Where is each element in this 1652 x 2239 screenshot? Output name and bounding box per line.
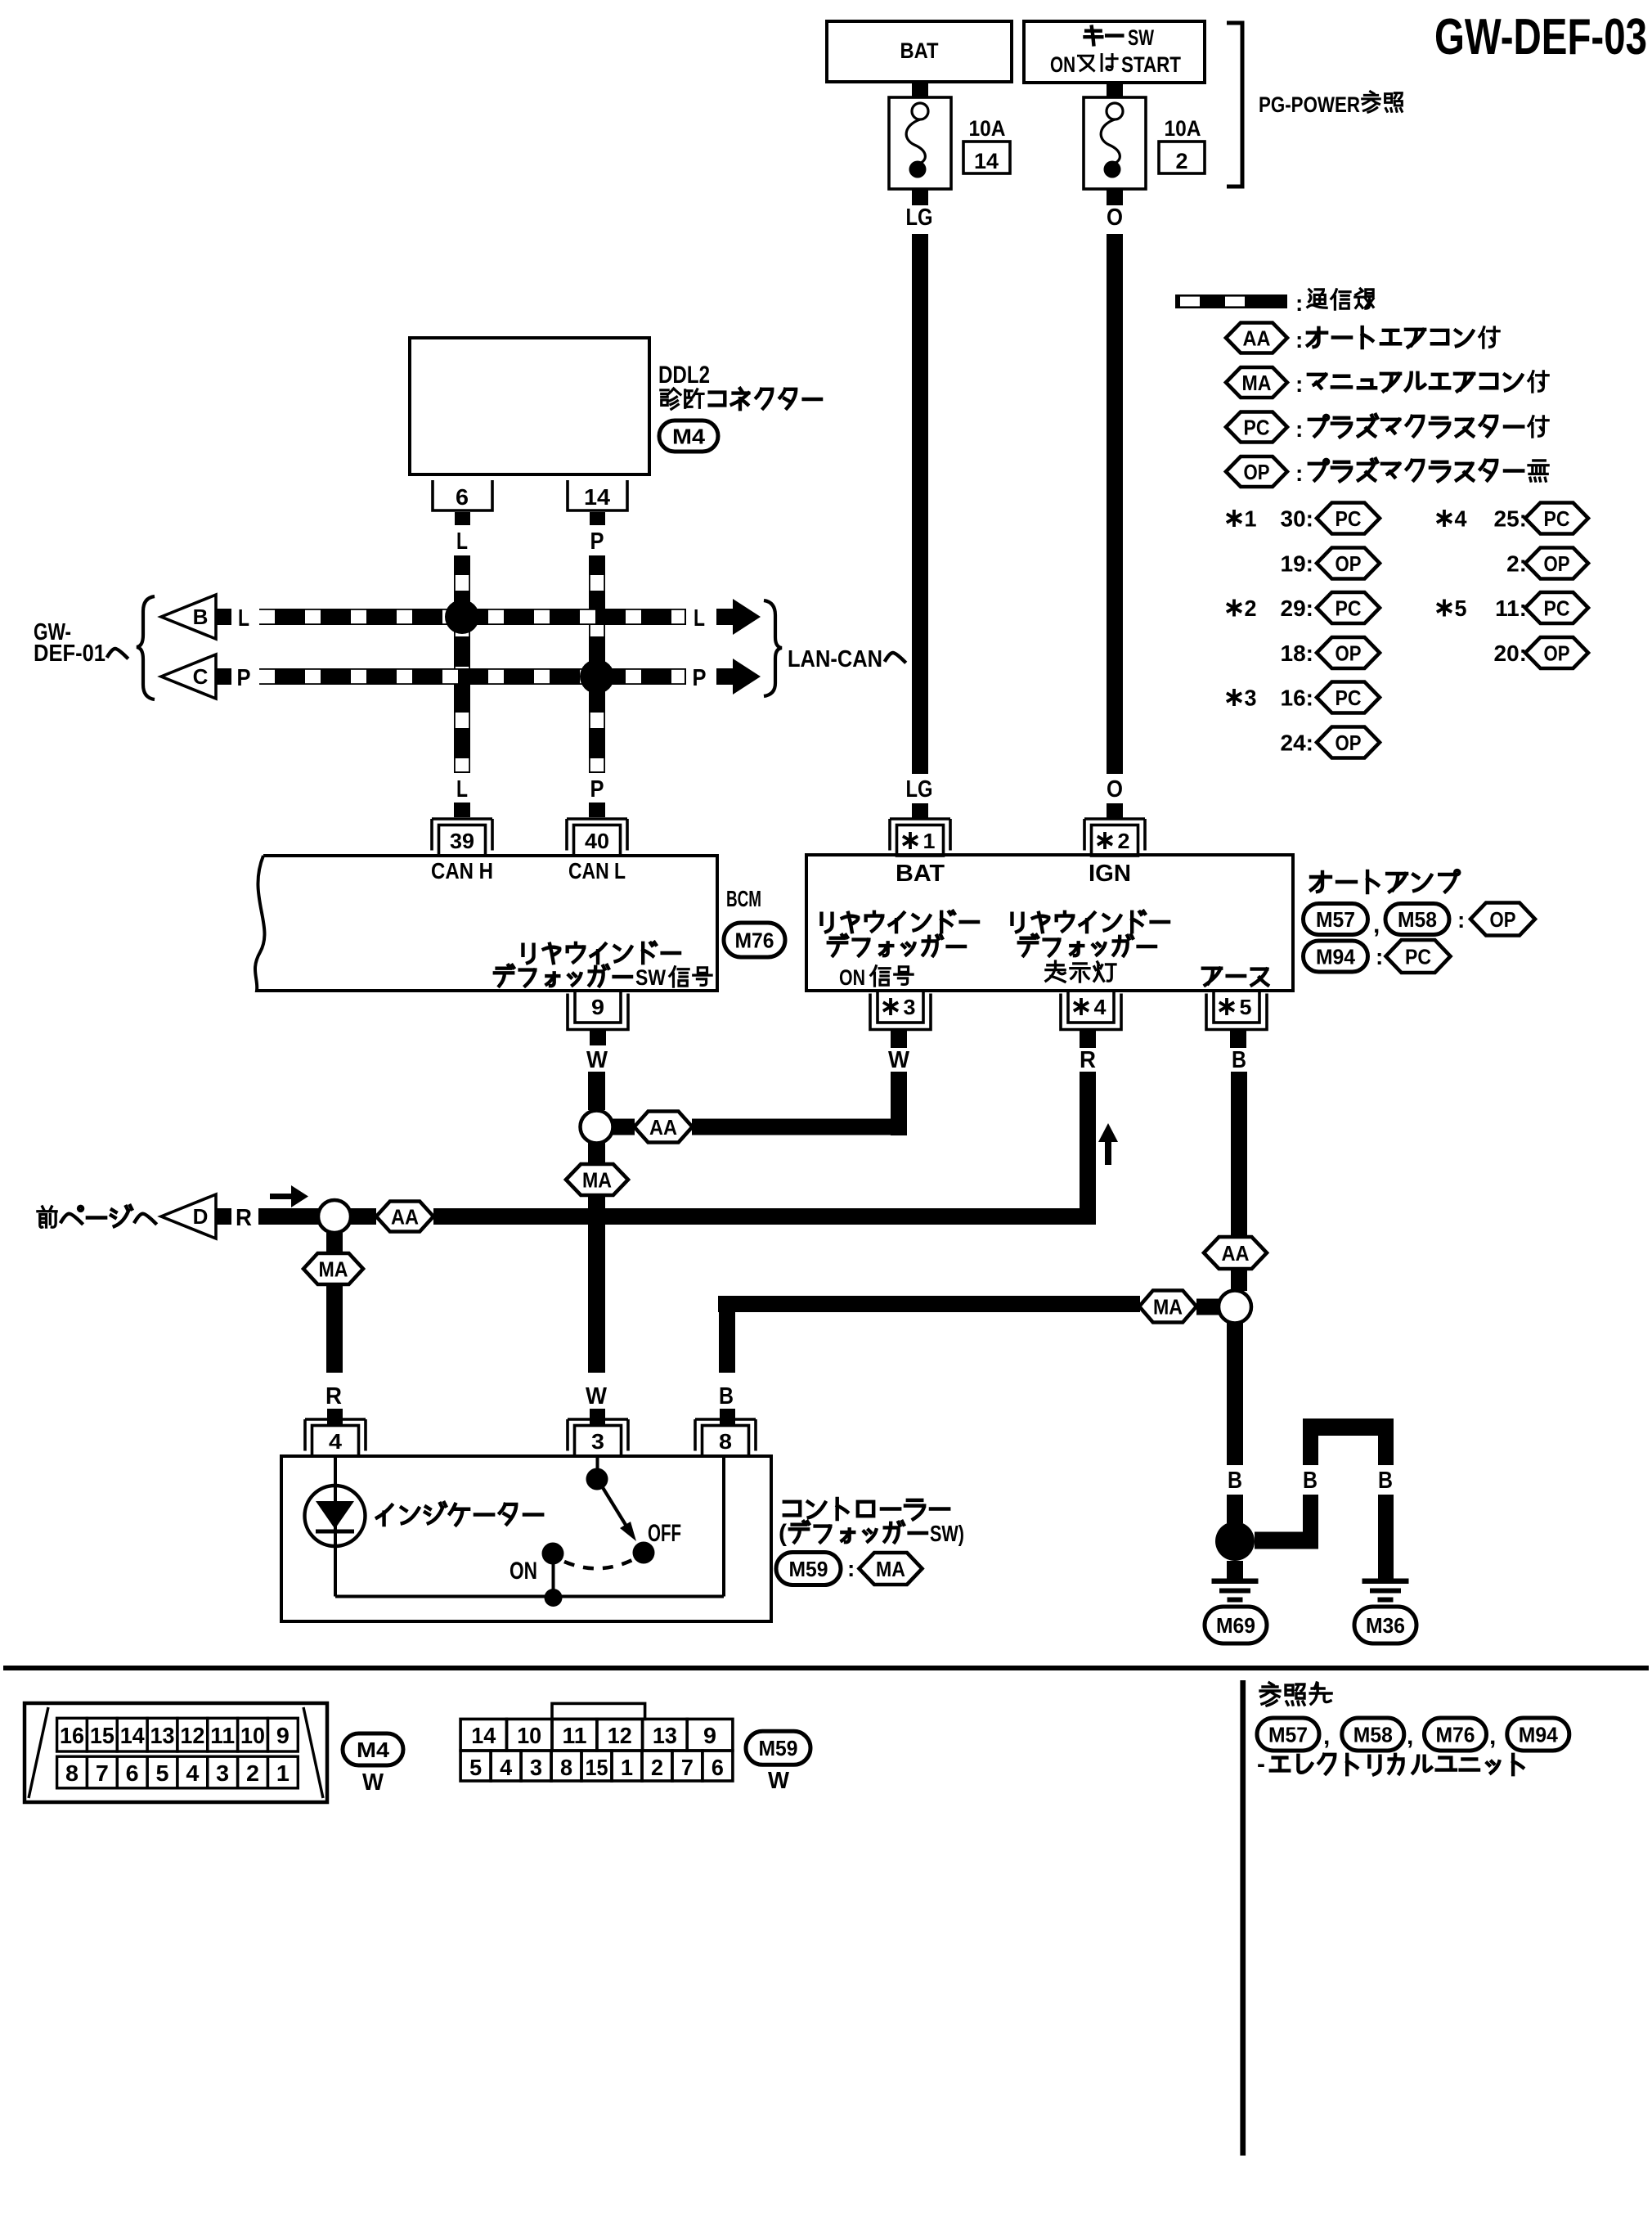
comm wire L horizontal: [259, 609, 686, 625]
svg-text:R: R: [325, 1383, 342, 1409]
label rear window defogger indicator: [1012, 911, 1169, 932]
pin 39: [432, 819, 492, 851]
svg-text:PC: PC: [1405, 944, 1431, 969]
connector M94 PC: [1304, 941, 1368, 972]
module controller box: [281, 1456, 771, 1621]
connector M36 oval: [1354, 1607, 1416, 1643]
svg-text:13: 13: [653, 1723, 677, 1748]
svg-text:5: 5: [1455, 596, 1467, 621]
svg-text:14: 14: [120, 1723, 145, 1748]
svg-text:W: W: [888, 1047, 910, 1073]
svg-text:C: C: [193, 664, 209, 689]
svg-text:24:: 24:: [1281, 731, 1313, 756]
svg-text:M59: M59: [759, 1736, 798, 1760]
svg-text:OP: OP: [1336, 731, 1362, 755]
indicator LED: [305, 1486, 366, 1546]
svg-text:L: L: [694, 605, 705, 632]
pin *3: [870, 994, 931, 1030]
svg-text:M94: M94: [1519, 1722, 1559, 1747]
svg-text:,: ,: [1407, 1723, 1413, 1750]
svg-text:AA: AA: [1243, 326, 1271, 350]
svg-text:MA: MA: [1153, 1294, 1183, 1319]
svg-text:4: 4: [500, 1755, 512, 1780]
wire R vertical from pin *4: [1080, 1072, 1096, 1225]
fuse F14 10A: [889, 97, 951, 189]
svg-text::: :: [1376, 944, 1383, 969]
svg-text:AA: AA: [649, 1115, 677, 1140]
svg-text:11:: 11:: [1495, 596, 1527, 621]
label earth: [1203, 969, 1268, 986]
pin 6 of DDL2: [433, 480, 492, 510]
svg-text:15: 15: [90, 1723, 114, 1748]
svg-text:B: B: [1378, 1468, 1393, 1494]
wire keySW to fuse: [1107, 83, 1123, 98]
wire R long horizontal: [433, 1208, 1096, 1225]
svg-text:40: 40: [585, 829, 609, 853]
svg-text:OFF: OFF: [648, 1520, 681, 1547]
svg-text:6: 6: [456, 484, 469, 510]
svg-text:GW-DEF-03: GW-DEF-03: [1434, 9, 1647, 65]
svg-text:M94: M94: [1316, 944, 1356, 969]
arrow P to LAN-CAN: [716, 668, 733, 685]
connector face M4: [25, 1703, 327, 1802]
legend row *316:PC: [1227, 689, 1241, 706]
svg-text:BAT: BAT: [900, 38, 939, 63]
svg-text:4: 4: [1094, 995, 1107, 1019]
svg-text:L: L: [456, 528, 468, 555]
wire internal pin4: [334, 1456, 337, 1597]
svg-text:4: 4: [186, 1760, 199, 1786]
svg-text::: :: [1295, 327, 1303, 353]
svg-text:W: W: [586, 1047, 608, 1073]
svg-text:,: ,: [1489, 1723, 1496, 1750]
svg-text:6: 6: [712, 1755, 724, 1780]
junction dot CAN-H: [445, 600, 479, 634]
svg-text:AA: AA: [1222, 1241, 1250, 1266]
svg-text:R: R: [236, 1205, 252, 1231]
svg-text:M76: M76: [735, 928, 774, 952]
svg-text:OP: OP: [1544, 641, 1570, 665]
pin 40: [567, 819, 627, 851]
svg-text:1: 1: [621, 1755, 633, 1780]
pin *4: [1061, 994, 1121, 1030]
reference connectors M57 M58 M76 M94: [1257, 1718, 1319, 1751]
pin 8: [695, 1419, 756, 1451]
svg-text:P: P: [237, 665, 251, 691]
legend row *229:PC: [1227, 600, 1241, 617]
junction dot CAN-L: [580, 659, 614, 694]
svg-text:6: 6: [126, 1760, 139, 1786]
svg-text:-: -: [1257, 1751, 1265, 1778]
svg-text:PG-POWER: PG-POWER: [1259, 92, 1360, 117]
wire B down: [1231, 1072, 1247, 1237]
wire R circle down: [326, 1233, 343, 1253]
module BCM box: [255, 856, 717, 991]
fuse F2 10A: [1084, 97, 1146, 189]
svg-text:ON: ON: [1050, 52, 1075, 77]
svg-text:4: 4: [1455, 506, 1467, 532]
svg-text:START: START: [1121, 52, 1181, 77]
svg-text:LG: LG: [906, 205, 933, 231]
svg-text:10: 10: [240, 1723, 265, 1748]
pin 4: [305, 1419, 366, 1451]
svg-text:PC: PC: [1544, 506, 1570, 531]
svg-text:PC: PC: [1544, 596, 1570, 620]
legend MA hexagon manual aircon: [1226, 367, 1287, 398]
svg-text:20:: 20:: [1494, 641, 1527, 666]
svg-text:M57: M57: [1268, 1722, 1308, 1747]
svg-text:3: 3: [904, 995, 916, 1019]
svg-text:30:: 30:: [1281, 506, 1313, 532]
junction circle B: [1219, 1291, 1251, 1324]
module auto amp box: [806, 855, 1293, 991]
svg-text:8: 8: [719, 1429, 732, 1454]
svg-text:3: 3: [530, 1755, 542, 1780]
svg-text:B: B: [1232, 1047, 1246, 1073]
label indicator: [377, 1503, 542, 1525]
svg-text:9: 9: [703, 1723, 716, 1748]
svg-text:MA: MA: [319, 1257, 348, 1281]
wire W circle down: [588, 1143, 605, 1165]
svg-text:OP: OP: [1336, 641, 1362, 665]
svg-text:MA: MA: [876, 1557, 905, 1581]
svg-text:PC: PC: [1336, 596, 1362, 620]
separator line: [3, 1666, 1649, 1670]
legend OP hexagon no plasmacluster: [1226, 456, 1287, 487]
svg-text:11: 11: [563, 1723, 587, 1748]
wire fuse F2 down O: [1107, 189, 1123, 205]
svg-text:14: 14: [974, 149, 999, 173]
svg-text:SW: SW: [635, 965, 666, 990]
page arrow D: [161, 1194, 216, 1239]
svg-text:10A: 10A: [1165, 116, 1201, 141]
pin *1: [890, 819, 950, 851]
svg-text:M69: M69: [1216, 1613, 1255, 1638]
svg-text:2: 2: [1118, 829, 1130, 853]
svg-text:OP: OP: [1544, 551, 1570, 576]
svg-text:10A: 10A: [969, 116, 1006, 141]
pin 9: [568, 994, 628, 1030]
connector M69 oval: [1205, 1607, 1267, 1643]
svg-text:B: B: [193, 605, 209, 629]
svg-text:O: O: [1107, 776, 1123, 803]
svg-text:OP: OP: [1244, 460, 1270, 484]
svg-text:O: O: [1107, 205, 1123, 231]
svg-text:CAN H: CAN H: [431, 858, 493, 883]
svg-text:BAT: BAT: [896, 861, 945, 887]
branch MA hexagon: [303, 1253, 363, 1284]
wire to AA: [613, 1119, 635, 1135]
svg-text:1: 1: [276, 1760, 290, 1786]
comm wire P vertical: [589, 555, 605, 773]
svg-text:2: 2: [246, 1760, 259, 1786]
page arrow C: [161, 654, 216, 699]
reference section divider: [1240, 1680, 1246, 2156]
svg-text:OP: OP: [1490, 907, 1516, 932]
svg-text:MA: MA: [582, 1167, 612, 1192]
svg-text:PC: PC: [1336, 686, 1362, 710]
label previous page: [38, 1206, 155, 1227]
svg-text:W: W: [768, 1768, 790, 1794]
connector M59 oval: [746, 1731, 810, 1765]
svg-text:P: P: [590, 776, 604, 803]
svg-text:M57: M57: [1316, 907, 1355, 932]
svg-text:M4: M4: [672, 424, 706, 448]
svg-text::: :: [1457, 907, 1465, 933]
legend row *425:PC: [1437, 510, 1452, 527]
wire R to circle: [258, 1208, 319, 1225]
svg-text:16:: 16:: [1281, 686, 1313, 711]
connector DDL2 box: [410, 338, 649, 474]
wire fuse F14 down LG: [912, 189, 928, 205]
comm wire L vertical: [454, 555, 470, 773]
label auto amp: [1311, 870, 1459, 892]
svg-text:ON: ON: [510, 1558, 537, 1585]
wire internal pin8: [722, 1456, 725, 1597]
svg-text:8: 8: [65, 1760, 79, 1786]
svg-text:LAN-CAN: LAN-CAN: [788, 646, 882, 672]
wire BAT to fuse: [912, 82, 928, 98]
page arrow B: [161, 595, 216, 639]
connector M4 oval: [659, 420, 718, 452]
svg-text:7: 7: [96, 1760, 109, 1786]
ground symbol M69: [1212, 1579, 1259, 1585]
pin *5: [1206, 994, 1267, 1030]
svg-text::: :: [1295, 290, 1303, 316]
connector M4 oval: [343, 1733, 403, 1765]
svg-text:PC: PC: [1336, 506, 1362, 531]
switch blade: [599, 1482, 626, 1525]
svg-text:16: 16: [60, 1723, 84, 1748]
svg-text:W: W: [586, 1383, 608, 1409]
flow arrow right: [270, 1194, 293, 1199]
svg-text:OP: OP: [1336, 551, 1362, 576]
svg-text:M58: M58: [1398, 907, 1437, 932]
svg-text:,: ,: [1323, 1723, 1330, 1750]
brace right: [764, 600, 782, 696]
flow arrow up: [1105, 1140, 1111, 1165]
legend row *130:PC: [1227, 510, 1241, 527]
switch common contact: [596, 1456, 599, 1469]
brace left: [137, 596, 155, 699]
wire ON to bottom: [552, 1553, 555, 1597]
label rear window defogger ON signal: [821, 911, 978, 932]
wire MA down to pin3: [588, 1195, 605, 1373]
svg-text:2: 2: [651, 1755, 663, 1780]
svg-text:B: B: [1228, 1468, 1242, 1494]
legend AA hexagon auto aircon: [1226, 323, 1287, 353]
wire to AA: [350, 1208, 376, 1225]
wire B horizontal to pin8: [718, 1296, 1140, 1312]
branch MA hexagon: [566, 1164, 628, 1195]
svg-text:M58: M58: [1353, 1722, 1393, 1747]
junction circle R: [318, 1200, 351, 1233]
pin *2: [1084, 819, 1145, 851]
wire AA to circle: [1231, 1269, 1247, 1291]
connector M59 MA: [776, 1553, 841, 1585]
wire internal bottom: [335, 1595, 724, 1598]
switch ON contact: [542, 1543, 564, 1565]
svg-text:SW: SW: [1128, 25, 1154, 50]
branch AA hexagon: [376, 1202, 433, 1232]
comm wire P horizontal: [259, 668, 686, 685]
connector face M59: [552, 1703, 645, 1719]
svg-text:25:: 25:: [1494, 506, 1527, 532]
svg-text::: :: [1295, 371, 1303, 397]
svg-text:3: 3: [1245, 686, 1257, 711]
wire AA to pin *3: [692, 1119, 891, 1135]
label rear window defogger SW signal: [523, 942, 680, 963]
svg-text::: :: [847, 1556, 855, 1581]
svg-text:W: W: [362, 1769, 384, 1796]
svg-text:14: 14: [471, 1723, 496, 1748]
svg-text:1: 1: [1245, 506, 1257, 532]
svg-text:3: 3: [591, 1429, 604, 1454]
power box BAT: [827, 21, 1012, 82]
svg-text:19:: 19:: [1281, 551, 1313, 577]
connector M76 oval: [724, 923, 785, 957]
legend row *511:PC: [1437, 600, 1452, 617]
branch AA hexagon: [1204, 1237, 1267, 1269]
svg-text:DEF-01: DEF-01: [34, 641, 105, 667]
ground symbol M36: [1362, 1579, 1409, 1585]
svg-text:P: P: [590, 528, 604, 555]
switch OFF contact: [633, 1542, 655, 1564]
wire B circle down: [1227, 1323, 1243, 1465]
pin 3: [568, 1419, 628, 1451]
svg-text:ON: ON: [839, 965, 865, 990]
label reference: [1260, 1683, 1331, 1706]
pin 14 of DDL2: [568, 480, 627, 510]
wire dot right: [1255, 1532, 1318, 1549]
svg-text:P: P: [693, 665, 707, 691]
svg-text:2: 2: [1176, 149, 1188, 173]
branch MA hexagon: [1139, 1291, 1196, 1323]
svg-text:SW): SW): [930, 1521, 964, 1546]
svg-text:L: L: [238, 605, 249, 632]
svg-text:DDL2: DDL2: [658, 362, 710, 389]
svg-text:12: 12: [608, 1723, 632, 1748]
svg-text:M4: M4: [357, 1738, 390, 1762]
svg-text:5: 5: [156, 1760, 169, 1786]
svg-text:18:: 18:: [1281, 641, 1313, 666]
svg-text:29:: 29:: [1281, 596, 1313, 621]
svg-text:B: B: [1303, 1468, 1318, 1494]
svg-text:M59: M59: [789, 1557, 828, 1581]
wire MA down to pin4: [326, 1284, 343, 1373]
svg-text:2: 2: [1245, 596, 1257, 621]
svg-text:8: 8: [560, 1755, 572, 1780]
svg-text:10: 10: [517, 1723, 541, 1748]
junction dot ground: [1215, 1522, 1255, 1561]
svg-text:PC: PC: [1244, 415, 1270, 439]
bracket PG-POWER: [1227, 23, 1242, 187]
svg-text:L: L: [456, 776, 468, 803]
svg-text:39: 39: [450, 829, 474, 853]
wire dot to ground: [1227, 1561, 1243, 1579]
svg-text:15: 15: [586, 1755, 608, 1780]
svg-text:1: 1: [923, 829, 936, 853]
svg-text:LG: LG: [906, 776, 933, 803]
svg-text:9: 9: [276, 1723, 290, 1748]
junction circle W: [581, 1111, 613, 1144]
legend communication line symbol: [1175, 294, 1287, 308]
svg-text:9: 9: [591, 995, 604, 1019]
wire jumper over: [1303, 1418, 1394, 1436]
svg-text:D: D: [193, 1204, 209, 1229]
svg-text::: :: [1295, 461, 1303, 486]
svg-text:B: B: [719, 1383, 734, 1409]
svg-text:M76: M76: [1436, 1722, 1475, 1747]
svg-text:R: R: [1080, 1047, 1096, 1073]
svg-text:3: 3: [216, 1760, 229, 1786]
switch dashed arc: [564, 1559, 634, 1568]
svg-text:(: (: [779, 1520, 787, 1547]
svg-text:5: 5: [1240, 995, 1252, 1019]
wire W down: [588, 1072, 605, 1110]
svg-text:5: 5: [469, 1755, 482, 1780]
svg-text::: :: [1295, 416, 1303, 442]
svg-text:CAN L: CAN L: [568, 858, 626, 883]
label controller defogger SW: [784, 1499, 949, 1519]
connector M57 M58 OP: [1304, 904, 1368, 935]
svg-text:12: 12: [180, 1723, 204, 1748]
svg-text:4: 4: [329, 1429, 343, 1454]
branch AA hexagon: [635, 1112, 693, 1143]
svg-text:M36: M36: [1366, 1613, 1405, 1638]
legend PC hexagon plasmacluster: [1226, 412, 1287, 443]
svg-text:MA: MA: [1242, 371, 1272, 395]
svg-text:13: 13: [150, 1723, 175, 1748]
svg-text:11: 11: [210, 1723, 235, 1748]
svg-text:IGN: IGN: [1089, 861, 1131, 887]
power box key SW ON/START: [1024, 21, 1205, 83]
svg-text:7: 7: [681, 1755, 694, 1780]
svg-text:BCM: BCM: [726, 886, 761, 911]
svg-text:AA: AA: [391, 1204, 419, 1229]
arrow L to LAN-CAN: [716, 609, 733, 625]
svg-text:14: 14: [584, 484, 610, 510]
svg-text:,: ,: [1373, 911, 1380, 938]
